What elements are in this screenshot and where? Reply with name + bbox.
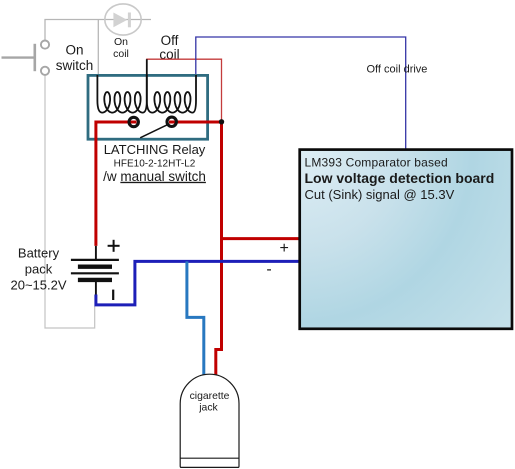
cigarette jack J1 <box>180 374 239 467</box>
coil center lead <box>146 59 148 75</box>
wire thin red off-coil common: center lead top to junction <box>146 59 221 120</box>
svg-text:+: + <box>280 240 289 257</box>
wire red battery plus to relay contact <box>96 122 137 246</box>
svg-text:coil: coil <box>113 48 129 60</box>
svg-text:HFE10-2-12HT-L2: HFE10-2-12HT-L2 <box>114 158 196 169</box>
battery pack B1 <box>71 246 119 295</box>
diode D1 (gray, in circle) <box>105 4 141 35</box>
svg-text:Cut (Sink) signal @ 15.3V: Cut (Sink) signal @ 15.3V <box>305 187 455 202</box>
svg-text:LATCHING Relay: LATCHING Relay <box>104 142 206 157</box>
svg-text:jack: jack <box>198 403 218 414</box>
svg-text:pack: pack <box>25 262 53 277</box>
relay contact left <box>129 117 138 126</box>
LM393 low voltage detection board U1 <box>300 150 512 329</box>
relay box <box>88 75 208 139</box>
svg-text:-: - <box>266 261 271 278</box>
svg-text:cigarette: cigarette <box>190 391 230 402</box>
pushbutton On switch <box>2 41 50 75</box>
junction node <box>219 119 224 124</box>
svg-text:/w manual switch: /w manual switch <box>103 169 206 184</box>
svg-text:On: On <box>114 36 128 48</box>
wire dark blue battery minus to board minus <box>96 261 299 305</box>
svg-text:Battery: Battery <box>18 246 60 261</box>
relay contact right <box>167 117 176 126</box>
wire gray bottom return from On switch to battery minus <box>45 75 95 328</box>
svg-text:LM393 Comparator based: LM393 Comparator based <box>305 156 448 170</box>
svg-text:Off coil drive: Off coil drive <box>367 64 428 76</box>
svg-text:20~15.2V: 20~15.2V <box>10 278 66 293</box>
battery plus mark <box>108 240 120 252</box>
svg-text:switch: switch <box>56 58 94 73</box>
wire navy Off coil drive: relay to board top <box>196 37 406 149</box>
wire medium blue branch to cigarette jack <box>187 261 204 375</box>
wire red junction to board plus <box>222 237 299 240</box>
svg-text:Low voltage detection board: Low voltage detection board <box>305 170 495 186</box>
relay coil 2 (Off coil) <box>147 75 196 113</box>
relay switch arm <box>140 125 167 138</box>
battery minus mark <box>112 290 114 300</box>
wire gray top from On switch to On coil and diode <box>45 20 151 76</box>
svg-text:On: On <box>65 42 83 57</box>
relay coil 1 (On coil) <box>97 75 146 113</box>
wire red relay contact to junction and down to jack <box>169 122 222 376</box>
